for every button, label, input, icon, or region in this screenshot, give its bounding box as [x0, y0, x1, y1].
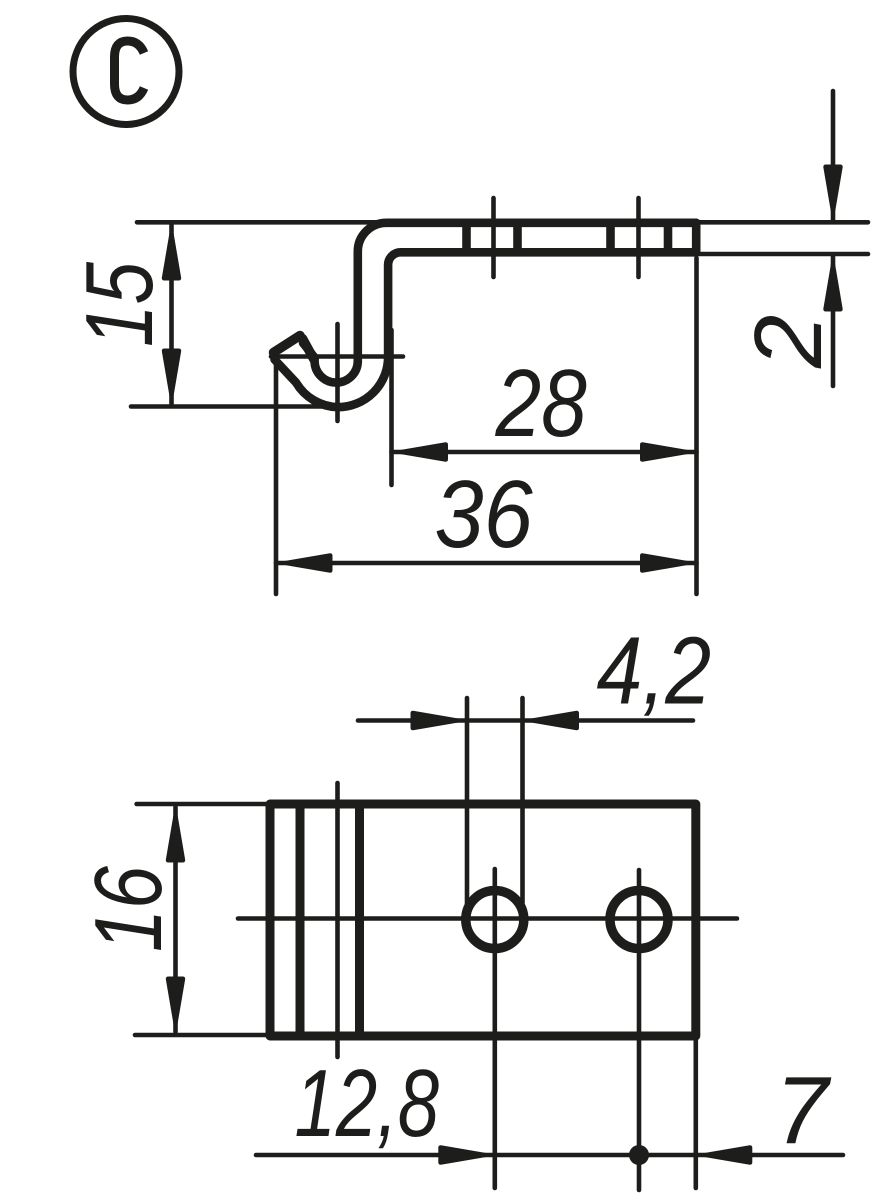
svg-text:4,2: 4,2 [597, 618, 712, 725]
16 bottom ext [135, 1033, 273, 1038]
svg-text:2: 2 [735, 315, 842, 369]
arrow 2 down (upper) [824, 165, 842, 221]
36 left ext line [274, 365, 279, 594]
extension line top (15 dim / 2 dim), y=222 [137, 220, 868, 225]
15 dim line + arrows [169, 225, 174, 404]
arrow 28 right [641, 443, 697, 461]
arrow 28 left [392, 443, 448, 461]
hole 1 circle [466, 891, 524, 949]
hole 2 circle [610, 891, 668, 949]
hole edges in section: hole 1 [462, 226, 471, 249]
16 top ext [137, 802, 273, 807]
hook stub (lip) [274, 336, 301, 353]
svg-text:7: 7 [775, 1057, 832, 1164]
hole 2 centre line [637, 870, 642, 1190]
plate bottom surface + leg inner + outer curl (thick) [275, 252, 697, 407]
arrow 15 up [162, 224, 180, 280]
letter C [115, 41, 145, 100]
hook lip inner edge [303, 339, 315, 360]
4,2 dim line [358, 718, 693, 723]
balloon circle C [73, 19, 179, 125]
svg-text:16: 16 [75, 866, 182, 952]
svg-text:15: 15 [66, 262, 173, 347]
svg-text:36: 36 [435, 461, 534, 568]
28 dim line [392, 450, 697, 455]
bend line 1 [296, 804, 305, 1036]
arrow 15 down [162, 349, 180, 405]
arrow 7 toward left [696, 1146, 752, 1164]
plate rectangle [270, 804, 696, 1036]
28 ext line [389, 330, 394, 485]
arrow 16 down [166, 977, 184, 1033]
4,2 ext lines [465, 698, 470, 904]
2 dim line upper [831, 91, 836, 220]
bend line 2 [355, 804, 364, 1036]
hole 1 centre line [492, 869, 497, 1188]
svg-text:28: 28 [495, 350, 587, 457]
hole center ticks crossing plate [491, 198, 496, 277]
hole edges in section: hole 2 [606, 226, 615, 249]
16 dim line [173, 807, 178, 1032]
plate right end cap [692, 223, 701, 253]
svg-text:12,8: 12,8 [295, 1050, 440, 1157]
36 dim line [276, 561, 697, 566]
arrow 4,2 toward left [523, 711, 579, 729]
hook centre line vertical [335, 783, 340, 1057]
chain dot [629, 1145, 649, 1165]
2 dim line lower [831, 256, 836, 386]
arrow 16 up [166, 806, 184, 862]
36/28 right ext line [694, 258, 699, 594]
right ext line bottom [693, 1040, 698, 1188]
plate top surface (thick) [303, 223, 696, 383]
arrow 2 up (lower) [824, 255, 842, 311]
arrow 36 left [276, 554, 332, 572]
hook center cross [271, 354, 403, 359]
arrow 36 right [641, 554, 697, 572]
extension line bottom for 15 dim, y=407 [131, 404, 342, 409]
arrow 12,8 toward right [439, 1146, 495, 1164]
horizontal centre line [238, 916, 737, 921]
extension line bottom of plate for 2 dim [698, 252, 868, 257]
bottom dim line [256, 1153, 843, 1158]
arrow 4,2 toward right [411, 711, 467, 729]
